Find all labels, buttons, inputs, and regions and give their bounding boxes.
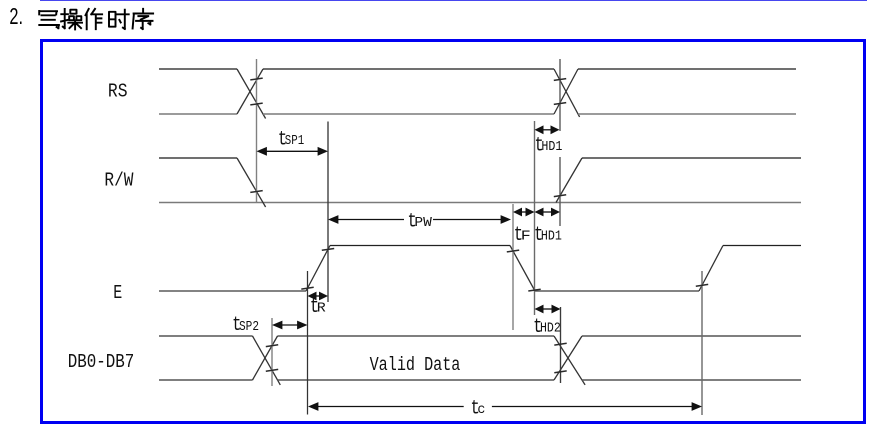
svg-text:R/W: R/W: [104, 171, 134, 192]
svg-text:c: c: [477, 402, 485, 418]
svg-text:E: E: [113, 283, 122, 304]
svg-text:SP2: SP2: [239, 319, 259, 335]
svg-text:RS: RS: [108, 82, 128, 103]
svg-text:R: R: [317, 300, 327, 316]
svg-text:HD2: HD2: [540, 320, 561, 336]
svg-text:DB0-DB7: DB0-DB7: [68, 352, 134, 373]
svg-text:HD1: HD1: [541, 139, 562, 155]
svg-text:Valid Data: Valid Data: [370, 355, 461, 376]
svg-text:PW: PW: [414, 215, 432, 231]
svg-text:HD1: HD1: [541, 228, 562, 244]
svg-text:SP1: SP1: [285, 133, 304, 149]
svg-text:2.: 2.: [9, 3, 23, 29]
svg-text:F: F: [521, 228, 531, 244]
